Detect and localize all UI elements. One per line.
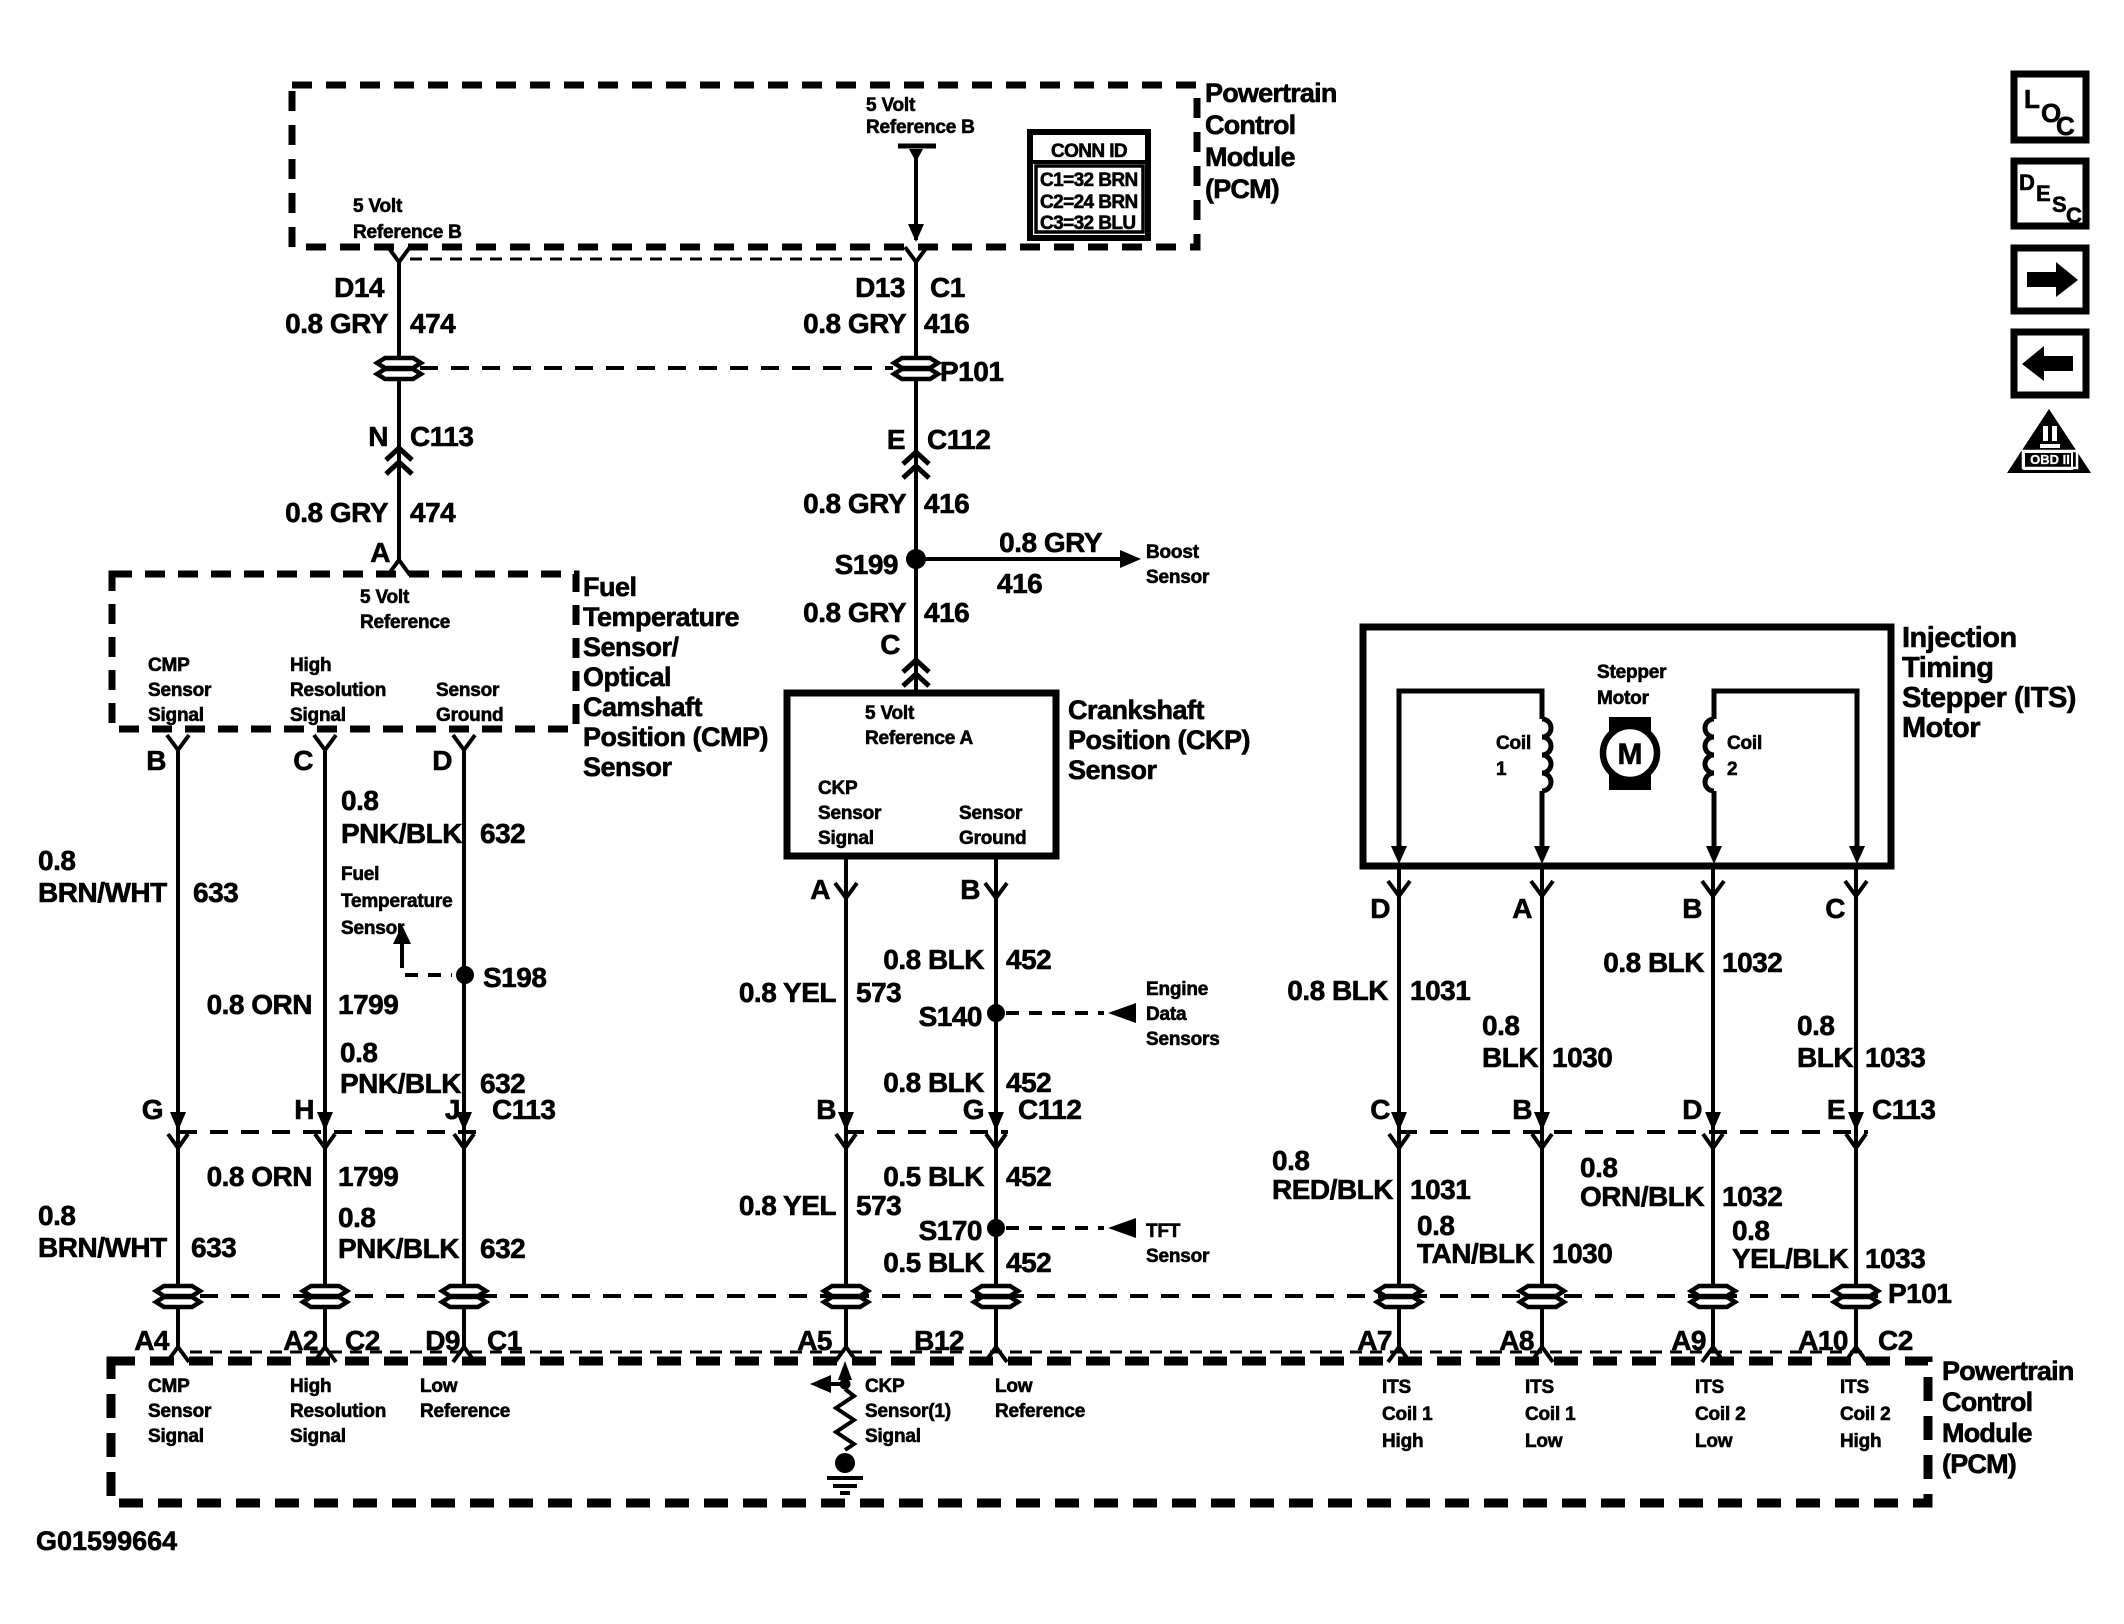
- svg-text:1799: 1799: [338, 1161, 398, 1192]
- svg-text:High: High: [290, 1376, 331, 1397]
- svg-text:M: M: [1618, 738, 1643, 771]
- svg-text:A2: A2: [283, 1325, 318, 1356]
- svg-text:High: High: [290, 655, 331, 676]
- svg-text:Coil 1: Coil 1: [1382, 1404, 1433, 1425]
- svg-text:1030: 1030: [1552, 1238, 1612, 1269]
- svg-text:A7: A7: [1357, 1325, 1392, 1356]
- svg-text:CMP: CMP: [148, 655, 190, 676]
- svg-text:A: A: [1512, 893, 1532, 924]
- svg-text:Powertrain: Powertrain: [1205, 78, 1337, 108]
- svg-text:Resolution: Resolution: [290, 1401, 386, 1422]
- svg-text:Reference: Reference: [995, 1401, 1085, 1422]
- svg-text:Stepper (ITS): Stepper (ITS): [1902, 682, 2076, 714]
- svg-text:CMP: CMP: [148, 1376, 190, 1397]
- svg-text:J: J: [445, 1094, 460, 1125]
- svg-text:633: 633: [191, 1232, 236, 1263]
- svg-text:416: 416: [924, 597, 969, 628]
- svg-text:Sensor: Sensor: [1068, 755, 1158, 785]
- svg-text:G: G: [142, 1094, 163, 1125]
- svg-text:Sensor: Sensor: [818, 803, 882, 824]
- svg-text:Crankshaft: Crankshaft: [1068, 695, 1205, 725]
- svg-text:A: A: [370, 537, 390, 568]
- svg-text:0.8: 0.8: [340, 1037, 377, 1068]
- svg-text:573: 573: [856, 977, 901, 1008]
- svg-text:A8: A8: [1499, 1325, 1534, 1356]
- svg-text:BLK: BLK: [1797, 1042, 1853, 1073]
- svg-text:Coil 2: Coil 2: [1695, 1404, 1746, 1425]
- svg-text:D: D: [2019, 170, 2035, 195]
- svg-text:Fuel: Fuel: [583, 572, 637, 602]
- svg-text:1033: 1033: [1865, 1243, 1925, 1274]
- svg-text:C2=24 BRN: C2=24 BRN: [1040, 192, 1138, 213]
- svg-text:D13: D13: [855, 272, 905, 303]
- svg-text:Signal: Signal: [818, 828, 874, 849]
- svg-text:C: C: [2056, 111, 2075, 141]
- svg-text:RED/BLK: RED/BLK: [1272, 1174, 1393, 1205]
- svg-text:0.8 GRY: 0.8 GRY: [803, 597, 907, 628]
- svg-text:1033: 1033: [1865, 1042, 1925, 1073]
- svg-text:C2: C2: [345, 1325, 380, 1356]
- svg-text:Boost: Boost: [1146, 542, 1200, 563]
- svg-text:Coil: Coil: [1727, 733, 1762, 754]
- svg-text:0.8 GRY: 0.8 GRY: [285, 497, 389, 528]
- svg-text:0.8 ORN: 0.8 ORN: [207, 989, 312, 1020]
- svg-text:ITS: ITS: [1382, 1377, 1411, 1398]
- svg-text:C: C: [1370, 1094, 1390, 1125]
- svg-text:G: G: [963, 1094, 984, 1125]
- svg-text:Optical: Optical: [583, 662, 671, 692]
- svg-text:Coil: Coil: [1496, 733, 1531, 754]
- svg-text:0.8 GRY: 0.8 GRY: [285, 308, 389, 339]
- svg-text:S198: S198: [483, 962, 546, 993]
- svg-text:Sensor: Sensor: [436, 680, 500, 701]
- svg-text:416: 416: [924, 488, 969, 519]
- svg-text:Camshaft: Camshaft: [583, 692, 703, 722]
- svg-text:C2: C2: [1878, 1325, 1913, 1356]
- svg-text:P101: P101: [1888, 1278, 1951, 1309]
- svg-text:1031: 1031: [1410, 975, 1470, 1006]
- svg-text:YEL/BLK: YEL/BLK: [1732, 1243, 1849, 1274]
- svg-text:416: 416: [924, 308, 969, 339]
- svg-text:B: B: [1512, 1094, 1532, 1125]
- svg-text:1032: 1032: [1722, 947, 1782, 978]
- svg-text:Signal: Signal: [290, 705, 346, 726]
- svg-text:573: 573: [856, 1190, 901, 1221]
- svg-text:0.8: 0.8: [1272, 1145, 1309, 1176]
- svg-text:0.8: 0.8: [1580, 1152, 1617, 1183]
- svg-text:Module: Module: [1205, 142, 1295, 172]
- svg-text:D14: D14: [334, 272, 385, 303]
- svg-text:Powertrain: Powertrain: [1942, 1356, 2074, 1386]
- svg-text:0.8: 0.8: [1417, 1210, 1454, 1241]
- svg-text:C113: C113: [1872, 1094, 1935, 1125]
- svg-text:0.8: 0.8: [38, 1200, 75, 1231]
- svg-text:A5: A5: [797, 1325, 832, 1356]
- svg-text:B: B: [960, 874, 980, 905]
- svg-text:Signal: Signal: [148, 705, 204, 726]
- svg-text:5 Volt: 5 Volt: [360, 587, 410, 608]
- svg-text:Sensor: Sensor: [959, 803, 1023, 824]
- svg-text:P101: P101: [940, 356, 1003, 387]
- svg-text:452: 452: [1006, 944, 1051, 975]
- svg-text:452: 452: [1006, 1247, 1051, 1278]
- svg-text:Ground: Ground: [436, 705, 503, 726]
- svg-text:Timing: Timing: [1902, 652, 1994, 684]
- svg-text:S170: S170: [919, 1215, 982, 1246]
- svg-text:C3=32 BLU: C3=32 BLU: [1040, 213, 1135, 234]
- svg-text:A9: A9: [1671, 1325, 1706, 1356]
- svg-text:ORN/BLK: ORN/BLK: [1580, 1181, 1704, 1212]
- svg-text:0.5 BLK: 0.5 BLK: [883, 1161, 984, 1192]
- svg-text:S: S: [2052, 192, 2067, 217]
- svg-text:High: High: [1840, 1431, 1881, 1452]
- svg-text:Position (CKP): Position (CKP): [1068, 725, 1250, 755]
- svg-text:E: E: [1827, 1094, 1845, 1125]
- svg-text:CKP: CKP: [865, 1376, 905, 1397]
- svg-text:Sensors: Sensors: [1146, 1029, 1220, 1050]
- svg-text:Position (CMP): Position (CMP): [583, 722, 768, 752]
- svg-text:D: D: [1682, 1094, 1702, 1125]
- svg-text:Sensor(1): Sensor(1): [865, 1401, 951, 1422]
- svg-text:C112: C112: [927, 424, 990, 455]
- svg-text:H: H: [294, 1094, 314, 1125]
- svg-text:Coil 2: Coil 2: [1840, 1404, 1891, 1425]
- svg-text:Sensor/: Sensor/: [583, 632, 680, 662]
- svg-text:632: 632: [480, 1233, 525, 1264]
- svg-text:Signal: Signal: [290, 1426, 346, 1447]
- svg-text:Low: Low: [420, 1376, 458, 1397]
- svg-text:S140: S140: [919, 1001, 982, 1032]
- svg-text:Sensor: Sensor: [1146, 567, 1210, 588]
- svg-text:ITS: ITS: [1695, 1377, 1724, 1398]
- svg-text:0.8: 0.8: [1797, 1010, 1834, 1041]
- svg-text:0.8 BLK: 0.8 BLK: [1287, 975, 1388, 1006]
- svg-text:C: C: [293, 745, 313, 776]
- svg-text:C113: C113: [492, 1094, 555, 1125]
- svg-text:416: 416: [997, 568, 1042, 599]
- svg-text:Sensor: Sensor: [1146, 1246, 1210, 1267]
- svg-text:(PCM): (PCM): [1205, 174, 1279, 204]
- svg-text:633: 633: [193, 877, 238, 908]
- svg-text:C113: C113: [410, 421, 473, 452]
- svg-text:CKP: CKP: [818, 778, 858, 799]
- svg-text:Reference: Reference: [360, 612, 450, 633]
- svg-text:C: C: [2066, 203, 2082, 228]
- svg-text:0.8 GRY: 0.8 GRY: [999, 527, 1103, 558]
- svg-text:2: 2: [1727, 759, 1737, 780]
- svg-text:Stepper: Stepper: [1597, 662, 1667, 683]
- svg-text:1030: 1030: [1552, 1042, 1612, 1073]
- svg-text:Control: Control: [1942, 1387, 2032, 1417]
- svg-text:Signal: Signal: [148, 1426, 204, 1447]
- svg-text:Sensor: Sensor: [148, 1401, 212, 1422]
- svg-text:0.8: 0.8: [341, 785, 378, 816]
- svg-text:B: B: [1682, 893, 1702, 924]
- svg-text:High: High: [1382, 1431, 1423, 1452]
- svg-text:Temperature: Temperature: [341, 891, 453, 912]
- svg-text:0.8: 0.8: [1732, 1215, 1769, 1246]
- svg-text:Reference A: Reference A: [865, 728, 973, 749]
- svg-text:BRN/WHT: BRN/WHT: [38, 877, 167, 908]
- svg-text:C1: C1: [930, 272, 965, 303]
- svg-text:A4: A4: [134, 1325, 170, 1356]
- svg-text:Temperature: Temperature: [583, 602, 740, 632]
- svg-text:Module: Module: [1942, 1418, 2032, 1448]
- svg-text:Low: Low: [1695, 1431, 1733, 1452]
- svg-text:OBD II: OBD II: [2030, 452, 2070, 467]
- svg-text:0.8: 0.8: [338, 1202, 375, 1233]
- svg-text:Data: Data: [1146, 1004, 1187, 1025]
- svg-text:Motor: Motor: [1902, 712, 1980, 744]
- svg-text:PNK/BLK: PNK/BLK: [338, 1233, 459, 1264]
- svg-text:C: C: [1825, 893, 1845, 924]
- svg-text:0.8 YEL: 0.8 YEL: [739, 1190, 837, 1221]
- svg-text:Signal: Signal: [865, 1426, 921, 1447]
- svg-text:G01599664: G01599664: [36, 1526, 177, 1556]
- svg-text:452: 452: [1006, 1161, 1051, 1192]
- svg-text:Ground: Ground: [959, 828, 1026, 849]
- svg-text:5 Volt: 5 Volt: [865, 703, 915, 724]
- svg-text:A10: A10: [1798, 1325, 1848, 1356]
- svg-text:A: A: [810, 874, 830, 905]
- svg-text:474: 474: [410, 497, 456, 528]
- svg-text:ITS: ITS: [1525, 1377, 1554, 1398]
- svg-text:C1: C1: [487, 1325, 522, 1356]
- svg-text:Control: Control: [1205, 110, 1295, 140]
- svg-text:1799: 1799: [338, 989, 398, 1020]
- svg-text:Reference B: Reference B: [866, 117, 975, 138]
- svg-text:0.5 BLK: 0.5 BLK: [883, 1247, 984, 1278]
- svg-text:TAN/BLK: TAN/BLK: [1417, 1238, 1535, 1269]
- svg-text:Resolution: Resolution: [290, 680, 386, 701]
- svg-text:BRN/WHT: BRN/WHT: [38, 1232, 167, 1263]
- svg-text:E: E: [887, 424, 905, 455]
- svg-text:0.8 YEL: 0.8 YEL: [739, 977, 837, 1008]
- svg-text:C112: C112: [1018, 1094, 1081, 1125]
- svg-text:0.8: 0.8: [38, 845, 75, 876]
- svg-text:C: C: [880, 629, 900, 660]
- svg-text:Coil 1: Coil 1: [1525, 1404, 1576, 1425]
- svg-text:TFT: TFT: [1146, 1221, 1181, 1242]
- svg-text:B: B: [146, 745, 166, 776]
- svg-text:474: 474: [410, 308, 456, 339]
- svg-text:E: E: [2036, 181, 2051, 206]
- svg-text:0.8 GRY: 0.8 GRY: [803, 488, 907, 519]
- svg-text:0.8 BLK: 0.8 BLK: [883, 944, 984, 975]
- svg-text:Sensor: Sensor: [583, 752, 673, 782]
- svg-text:0.8 ORN: 0.8 ORN: [207, 1161, 312, 1192]
- svg-text:CONN ID: CONN ID: [1051, 141, 1127, 162]
- svg-text:(PCM): (PCM): [1942, 1449, 2016, 1479]
- svg-text:D: D: [1370, 893, 1390, 924]
- svg-text:L: L: [2024, 84, 2040, 114]
- svg-text:C1=32 BRN: C1=32 BRN: [1040, 170, 1138, 191]
- svg-text:Injection: Injection: [1902, 622, 2017, 654]
- svg-text:1: 1: [1496, 759, 1507, 780]
- svg-text:Fuel: Fuel: [341, 864, 379, 885]
- svg-text:D9: D9: [425, 1325, 460, 1356]
- svg-text:1031: 1031: [1410, 1174, 1470, 1205]
- svg-text:D: D: [432, 745, 452, 776]
- svg-text:5 Volt: 5 Volt: [353, 196, 403, 217]
- svg-text:N: N: [368, 421, 388, 452]
- svg-text:S199: S199: [835, 549, 898, 580]
- svg-text:5 Volt: 5 Volt: [866, 95, 916, 116]
- svg-text:PNK/BLK: PNK/BLK: [341, 818, 462, 849]
- svg-text:1032: 1032: [1722, 1181, 1782, 1212]
- svg-text:Reference: Reference: [420, 1401, 510, 1422]
- svg-text:0.8: 0.8: [1482, 1010, 1519, 1041]
- svg-text:PNK/BLK: PNK/BLK: [340, 1068, 461, 1099]
- svg-text:0.8 BLK: 0.8 BLK: [1603, 947, 1704, 978]
- svg-text:Low: Low: [995, 1376, 1033, 1397]
- svg-text:Sensor: Sensor: [341, 918, 405, 939]
- svg-text:Low: Low: [1525, 1431, 1563, 1452]
- svg-text:Engine: Engine: [1146, 979, 1208, 1000]
- svg-text:B12: B12: [914, 1325, 964, 1356]
- svg-text:Motor: Motor: [1597, 688, 1650, 709]
- svg-text:ITS: ITS: [1840, 1377, 1869, 1398]
- svg-text:BLK: BLK: [1482, 1042, 1538, 1073]
- svg-text:Reference B: Reference B: [353, 222, 462, 243]
- svg-text:632: 632: [480, 818, 525, 849]
- svg-text:Sensor: Sensor: [148, 680, 212, 701]
- svg-text:0.8 GRY: 0.8 GRY: [803, 308, 907, 339]
- svg-text:B: B: [816, 1094, 836, 1125]
